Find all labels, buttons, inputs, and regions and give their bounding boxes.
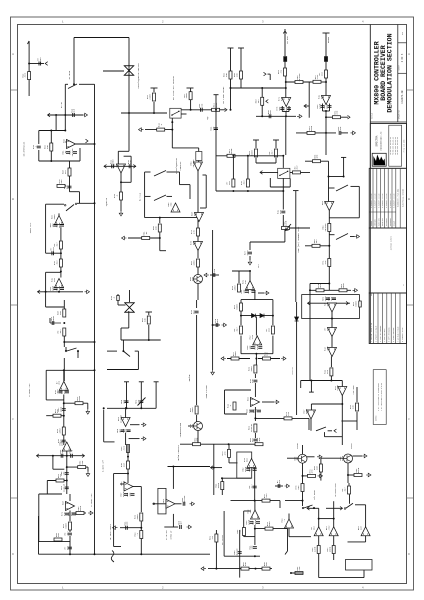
wire input stub [28, 41, 30, 96]
wire feedback box 2 [46, 203, 64, 205]
wire stage box [302, 295, 360, 319]
svg-text:1N4148: 1N4148 [71, 148, 74, 157]
svg-text:.01: .01 [323, 200, 326, 205]
wire [282, 111, 289, 113]
title box separator [397, 25, 399, 123]
capacitor C29 [253, 439, 257, 441]
logo box [370, 123, 406, 168]
capacitor C21b [62, 409, 66, 411]
svg-text:8K2: 8K2 [216, 318, 219, 323]
resistor R8 [240, 71, 243, 79]
op-amp U10B [251, 398, 260, 407]
capacitor C6a [339, 131, 341, 135]
project cell [369, 228, 406, 293]
op-amp U14A [247, 459, 256, 468]
wire [325, 117, 327, 155]
resistor R37c [328, 284, 330, 291]
capacitor C13 [248, 252, 252, 254]
svg-text:560R: 560R [251, 150, 254, 156]
capacitor C23 [121, 430, 125, 432]
wire right stage column [197, 171, 199, 242]
capacitor C1b [73, 113, 75, 117]
svg-text:PH 09 248 4888: PH 09 248 4888 [403, 140, 405, 153]
ground [187, 525, 192, 529]
resistor R48 ground left [227, 358, 250, 360]
op-amp U6A [249, 271, 251, 281]
svg-text:560R: 560R [217, 482, 220, 488]
svg-text:.047: .047 [56, 242, 59, 248]
capacitor C40 [124, 494, 128, 496]
svg-text:2K2: 2K2 [321, 71, 324, 76]
svg-text:RX AF OUT: RX AF OUT [165, 529, 168, 540]
resistor R37 [328, 259, 331, 267]
op-amp U2A [67, 140, 76, 149]
wire [349, 495, 351, 504]
svg-text:8K2: 8K2 [245, 457, 248, 462]
svg-text:R.GLOVER 4-6-96: R.GLOVER 4-6-96 [371, 194, 373, 208]
resistor R25 row [128, 237, 160, 239]
capacitor C45b [246, 469, 250, 471]
resistor R75 [295, 572, 303, 575]
op-amp U11C [328, 348, 337, 357]
resistor R40 [46, 415, 64, 417]
wire [120, 173, 122, 192]
resistor R73 [348, 474, 355, 476]
resistor R42 [62, 427, 65, 435]
resistor R60 [69, 522, 72, 530]
capacitor C16 [252, 291, 256, 293]
svg-text:.047: .047 [236, 327, 239, 333]
svg-text:ENGINEERING LTD: ENGINEERING LTD [380, 131, 383, 150]
svg-text:1N4148: 1N4148 [120, 414, 123, 423]
notes box [373, 370, 386, 425]
svg-text:4558: 4558 [268, 521, 271, 527]
svg-text:4558: 4558 [61, 440, 64, 446]
svg-text:CHECKED: CHECKED [375, 219, 377, 226]
wire [331, 337, 333, 348]
svg-text:22K: 22K [56, 409, 59, 414]
ground [248, 260, 252, 265]
svg-text:560R: 560R [230, 148, 233, 154]
capacitor C12 [282, 178, 284, 209]
title block outline [369, 25, 371, 344]
wire right bus node [94, 143, 96, 145]
svg-text:150K: 150K [58, 285, 61, 291]
ground [130, 424, 140, 426]
capacitor C18 [50, 322, 61, 324]
wire [128, 113, 130, 151]
capacitor C15 [245, 291, 249, 293]
resistor R29 [227, 154, 235, 157]
resistor R23 [59, 259, 62, 267]
diode D6 [260, 314, 264, 318]
resistor R36 [305, 245, 329, 247]
wire top row [168, 466, 211, 468]
wire squelch node [121, 112, 167, 114]
svg-text:.01: .01 [145, 231, 148, 236]
svg-text:.047: .047 [59, 329, 62, 335]
svg-text:DEMOD AF: DEMOD AF [170, 531, 173, 540]
svg-text:47K: 47K [287, 411, 290, 416]
svg-text:1K0: 1K0 [251, 467, 254, 472]
margin tick right [407, 89, 414, 91]
wire chain [66, 451, 68, 494]
svg-text:SPECTRA: SPECTRA [376, 135, 379, 146]
capacitor C51 [238, 552, 242, 554]
svg-text:SQUELCH: SQUELCH [105, 197, 108, 206]
svg-text:47K: 47K [324, 260, 327, 265]
wire out [125, 433, 127, 445]
svg-text:.022: .022 [265, 493, 268, 499]
svg-text:47K: 47K [63, 511, 66, 516]
svg-text:1N4148: 1N4148 [236, 548, 239, 557]
capacitor C19 [58, 391, 62, 393]
op-amp U4A [117, 164, 126, 173]
resistor R69 [241, 567, 249, 570]
resistor R28 [197, 259, 200, 267]
svg-text:12K: 12K [251, 378, 254, 383]
wire feedback left [243, 511, 245, 537]
resistor divider pair R12 R13 [255, 140, 257, 148]
svg-text:.047: .047 [326, 301, 329, 307]
resistor R33 [238, 284, 241, 292]
svg-text:.022: .022 [328, 525, 331, 531]
svg-text:22K: 22K [336, 110, 339, 115]
wire audio bus [39, 553, 211, 555]
switch S8 [326, 507, 342, 509]
svg-text:1U0: 1U0 [53, 277, 56, 282]
capacitor C11b [54, 288, 58, 290]
svg-text:1N4148: 1N4148 [183, 495, 186, 504]
svg-text:R.GLOVER 4-6-96: R.GLOVER 4-6-96 [394, 194, 396, 208]
svg-text:220R: 220R [122, 480, 125, 486]
wire [290, 227, 311, 229]
resistor R68 [243, 528, 246, 536]
resistor R4 [151, 87, 158, 89]
node J1 [28, 63, 30, 65]
svg-text:560R: 560R [52, 315, 55, 321]
wire break mark [111, 551, 114, 563]
capacitor C30 [213, 324, 220, 326]
svg-text:1K0: 1K0 [330, 296, 333, 301]
wire row [37, 454, 40, 458]
wire [197, 284, 199, 301]
svg-text:2K2: 2K2 [52, 246, 55, 251]
wire feedback box [45, 370, 47, 400]
svg-text:R.GLOVER 4-6-96: R.GLOVER 4-6-96 [378, 194, 380, 208]
wire row [107, 407, 156, 409]
resistor R39 [63, 328, 66, 336]
wire [77, 351, 79, 358]
resistor R30 [290, 171, 310, 173]
svg-text:1K0: 1K0 [57, 532, 60, 537]
wire bottom row [215, 155, 217, 191]
svg-text:33K: 33K [143, 317, 146, 322]
wire [365, 536, 367, 542]
capacitor C36 [72, 513, 76, 515]
resistor R49 ground right [258, 358, 280, 360]
resistor R74 [348, 486, 351, 494]
capacitor C5b [329, 104, 331, 112]
svg-text:100K: 100K [285, 105, 288, 111]
op-amp U8A [59, 381, 68, 390]
op-amp U5C [194, 242, 203, 251]
wire chain [46, 306, 65, 308]
wire long right [255, 417, 309, 419]
op-amp U14B [251, 510, 260, 519]
wire [287, 529, 289, 551]
capacitor C46 [275, 485, 283, 487]
svg-text:33K: 33K [169, 202, 172, 207]
node [254, 528, 256, 530]
ground [351, 131, 356, 135]
svg-text:100K: 100K [191, 407, 194, 413]
svg-text:1K0: 1K0 [269, 109, 272, 114]
node row [330, 380, 332, 382]
svg-text:2K2: 2K2 [326, 326, 329, 331]
svg-text:1K0: 1K0 [316, 465, 319, 470]
wire arrow stub [264, 72, 267, 76]
wire chain 2 [60, 227, 62, 241]
resistor R54 [330, 368, 333, 376]
capacitor C43 [120, 527, 141, 529]
wire stub left [103, 70, 124, 72]
svg-text:1U0: 1U0 [279, 209, 282, 214]
wire [254, 468, 256, 501]
op-amp U10A [253, 336, 262, 345]
svg-text:R.GLOVER 4-6-96: R.GLOVER 4-6-96 [386, 194, 388, 208]
svg-text:4K7: 4K7 [64, 169, 67, 174]
capacitor C5a [322, 104, 324, 112]
svg-text:1K0: 1K0 [51, 223, 54, 228]
connector pin [359, 301, 362, 307]
capacitor C44 [164, 526, 178, 528]
wire base [321, 457, 344, 459]
wire base [287, 457, 298, 459]
ground [222, 323, 227, 327]
resistor R78 [333, 536, 335, 546]
capacitor C33 [65, 473, 69, 475]
wire rail stub 1 [126, 382, 128, 409]
resistor R44 [195, 406, 198, 414]
wire link [319, 518, 334, 520]
wire [224, 555, 260, 557]
capacitor C22 [125, 401, 129, 403]
wire [55, 115, 57, 131]
capacitor C11c [60, 288, 64, 290]
resistor R65 [228, 449, 231, 457]
ground [348, 115, 351, 119]
svg-text:RX CTCSS: RX CTCSS [221, 534, 224, 544]
svg-text:10K: 10K [258, 437, 261, 442]
svg-text:220R: 220R [285, 220, 288, 226]
stage box [158, 488, 166, 514]
ground [87, 403, 89, 409]
wire stage top row [46, 369, 94, 371]
svg-text:8K2: 8K2 [278, 106, 281, 111]
approvals table [369, 168, 406, 228]
svg-text:SHEET: SHEET [399, 64, 401, 70]
svg-text:560R: 560R [58, 222, 61, 228]
wire [255, 354, 257, 365]
svg-text:.01: .01 [280, 69, 283, 74]
wire [323, 110, 330, 112]
wire chain [63, 395, 65, 446]
ground [122, 236, 127, 240]
op-amp U3A [55, 279, 64, 288]
svg-text:1U0: 1U0 [249, 345, 252, 350]
wire box bottom [39, 160, 80, 162]
svg-text:4K7: 4K7 [193, 211, 196, 216]
resistor R32 [247, 156, 249, 180]
resistor R59 [54, 538, 62, 541]
wire [300, 381, 302, 389]
svg-text:8K2: 8K2 [192, 240, 195, 245]
wire [181, 109, 213, 111]
wire right bus from switch [94, 84, 96, 554]
svg-text:0.3KHZ LPF: 0.3KHZ LPF [90, 493, 93, 507]
svg-text:TITLE: TITLE [371, 112, 374, 119]
svg-text:5 SEPT REVISION: 5 SEPT REVISION [389, 328, 391, 342]
wire [254, 407, 256, 421]
op-amp U1A [282, 98, 291, 107]
capacitor C25a [326, 298, 330, 300]
svg-text:.047: .047 [296, 165, 299, 171]
wire [197, 250, 199, 258]
svg-text:RX LINE LEVEL: RX LINE LEVEL [222, 86, 225, 104]
capacitor C47 [250, 522, 254, 524]
node [230, 109, 232, 111]
svg-text:3KHZ LPF: 3KHZ LPF [29, 222, 32, 233]
wire to squelch opamp [172, 147, 198, 149]
resistor R25a [159, 218, 161, 223]
op-amp U7A [325, 202, 334, 211]
svg-text:150K: 150K [234, 351, 237, 357]
capacitor C48 [256, 522, 260, 524]
wire chain [69, 161, 71, 192]
svg-text:560R: 560R [236, 304, 239, 310]
svg-text:33K: 33K [244, 561, 247, 566]
node [285, 81, 287, 83]
ground [87, 467, 89, 471]
svg-text:.047: .047 [251, 484, 254, 490]
svg-text:.047: .047 [271, 150, 274, 156]
capacitor C4 [256, 115, 296, 117]
svg-text:22K: 22K [352, 404, 355, 409]
relay K1 RX TALK OFF SWITCH [170, 108, 181, 118]
resistor R50 [254, 365, 257, 373]
capacitor C26a [251, 347, 255, 349]
op-amp U15C [361, 527, 370, 536]
wire [128, 311, 130, 328]
svg-text:2K2: 2K2 [313, 526, 316, 531]
svg-text:.01: .01 [211, 535, 214, 540]
wire [231, 87, 286, 89]
svg-text:220R: 220R [247, 519, 250, 525]
ground [211, 370, 215, 375]
svg-text:100K: 100K [193, 260, 196, 266]
svg-text:10K: 10K [154, 225, 157, 230]
trimpot VR1 loop level [282, 227, 290, 230]
op-amp U2B [55, 216, 64, 225]
wire [196, 315, 198, 405]
capacitor C8 [68, 186, 72, 188]
wire stage top [254, 290, 256, 300]
wire row [308, 301, 311, 305]
capacitor C17 [210, 274, 219, 276]
resistor R46 [240, 326, 243, 334]
svg-text:22K: 22K [244, 279, 247, 284]
wire arrow in [260, 171, 263, 175]
wire [331, 312, 333, 329]
wire [215, 530, 217, 569]
wire mute bus [128, 38, 130, 114]
resistor R27 [197, 228, 200, 236]
svg-text:.022: .022 [251, 334, 254, 340]
svg-text:.047: .047 [344, 487, 347, 493]
resistor R67 [231, 500, 281, 502]
svg-text:8K2: 8K2 [297, 485, 300, 490]
wire left arrow [307, 507, 310, 511]
resistor R52 [254, 424, 257, 432]
wire box bottom [145, 217, 198, 219]
wire feedback [308, 82, 310, 118]
resistor R53 [284, 417, 292, 420]
wire [328, 211, 330, 284]
ferrite bead FB1 [284, 57, 287, 62]
switch S4 [65, 350, 67, 352]
wire RX line input [230, 48, 232, 88]
relay switch K2 row B [145, 195, 151, 197]
svg-text:1U0: 1U0 [63, 389, 66, 394]
wire rail stub 3 [155, 382, 157, 409]
ferrite bead FB2 [324, 57, 327, 62]
svg-text:10K: 10K [122, 399, 125, 404]
svg-text:22K: 22K [266, 351, 269, 356]
ground [318, 474, 323, 478]
svg-text:2K2: 2K2 [278, 479, 281, 484]
resistor R34 [305, 160, 329, 162]
resistor R10 [284, 68, 287, 76]
svg-text:12K: 12K [243, 289, 246, 294]
resistor R14 [325, 70, 328, 78]
wire feedback box 3 [60, 271, 62, 273]
svg-text:10K: 10K [316, 154, 319, 159]
ground [355, 235, 360, 239]
capacitor C11b [129, 164, 131, 168]
capacitor C4b [287, 108, 291, 110]
wire feedback loop [124, 155, 132, 157]
svg-text:1N4148: 1N4148 [192, 159, 195, 168]
resistor R67b row [255, 528, 288, 530]
svg-text:8K2: 8K2 [192, 309, 195, 314]
op-amp U9A [125, 407, 127, 417]
wire right contact [355, 504, 366, 506]
op-amp U11D [338, 387, 347, 396]
svg-text:2K2: 2K2 [39, 57, 42, 62]
svg-text:12K: 12K [61, 449, 64, 454]
svg-text:4558: 4558 [112, 159, 115, 165]
ground [264, 291, 269, 295]
wire bus junction [94, 553, 96, 555]
wire loop [351, 185, 360, 187]
ground [353, 289, 358, 293]
svg-text:R.GLOVER 4-6-96: R.GLOVER 4-6-96 [390, 194, 392, 208]
resistor R41 [63, 402, 65, 404]
wire [324, 432, 326, 437]
wire [140, 539, 142, 555]
op-amp U12A [62, 442, 71, 451]
